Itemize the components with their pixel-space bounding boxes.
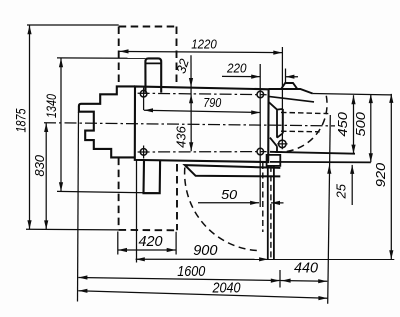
- dim 1600 and 440 line: [78, 270, 327, 288]
- dim 1875 line: [29, 25, 31, 229]
- column lower part: [144, 160, 161, 193]
- svg-text:1600: 1600: [177, 264, 205, 280]
- dim 50 lines: [198, 202, 284, 204]
- table slab second line: [270, 161, 371, 164]
- main centerline: [44, 123, 335, 126]
- spindle head hat trapezoid: [281, 83, 297, 89]
- dim 32 and 436 line: [190, 55, 192, 151]
- swing arc large: [185, 168, 258, 251]
- dim 1340 line: [60, 58, 62, 191]
- bracket block: [267, 155, 281, 166]
- dim 830 line: [45, 123, 47, 229]
- headstock stepped profile: [79, 86, 135, 157]
- hidden dashes lower: [281, 130, 320, 133]
- svg-text:220: 220: [226, 60, 247, 75]
- leg left line: [267, 166, 269, 260]
- ext 1340 top: [57, 57, 145, 59]
- svg-text:420: 420: [139, 234, 163, 250]
- baseline: [26, 228, 119, 231]
- bolt row centerline top: [138, 93, 267, 95]
- svg-text:1875: 1875: [13, 108, 28, 132]
- bolt axis right long: [259, 64, 261, 207]
- table slab upper line: [270, 152, 355, 154]
- dim 790 line: [144, 110, 260, 112]
- dim 900 long line: [136, 258, 395, 260]
- svg-text:436: 436: [173, 125, 188, 147]
- ext top right: [313, 94, 392, 95]
- dim 1220 line: [120, 51, 283, 52]
- svg-text:450: 450: [335, 111, 350, 136]
- bolt hole bottom left: [140, 149, 147, 156]
- spindle nose protrusion: [269, 102, 283, 152]
- svg-text:830: 830: [32, 154, 47, 176]
- svg-text:500: 500: [353, 111, 368, 136]
- top extension line: [27, 24, 119, 26]
- hidden dashes upper: [281, 112, 328, 113]
- bolt row centerline bottom: [138, 151, 267, 153]
- dim 500 line: [370, 94, 372, 162]
- arrowheads: [27, 25, 31, 34]
- svg-text:440: 440: [294, 261, 318, 277]
- dim 420 line: [118, 232, 176, 255]
- dim 2040 line: [78, 291, 327, 298]
- svg-text:920: 920: [373, 162, 388, 187]
- column cap seam: [145, 62, 161, 64]
- ext 900 left: [136, 160, 138, 262]
- svg-text:900: 900: [193, 243, 217, 259]
- bolt tick bottom left: [143, 146, 145, 159]
- ext left long: [78, 112, 79, 302]
- ext 1340 bottom: [57, 191, 158, 193]
- dim 920 line: [390, 94, 392, 259]
- ext right long: [328, 115, 331, 304]
- travel envelope dashed rectangle: [119, 27, 177, 231]
- svg-text:25: 25: [333, 183, 348, 199]
- svg-text:50: 50: [221, 187, 238, 202]
- dim 25 line: [351, 165, 353, 205]
- bolt hole top left: [140, 90, 147, 97]
- bolt hole bottom right: [257, 148, 264, 155]
- leg hidden line: [270, 166, 272, 260]
- bolt hole top right: [257, 91, 264, 98]
- spindle axis line: [281, 47, 283, 140]
- spindle head slant edge: [269, 96, 314, 102]
- spindle head top edge: [269, 89, 313, 94]
- leg right line: [273, 166, 275, 260]
- bolt tick top left: [143, 88, 145, 111]
- spindle center mark: [279, 140, 287, 148]
- svg-text:1220: 1220: [191, 36, 217, 51]
- base plate outline: [135, 86, 269, 162]
- dim 220 line: [222, 69, 298, 85]
- hidden line left of legs: [262, 163, 264, 232]
- swing arc small: [274, 96, 327, 152]
- svg-text:1340: 1340: [44, 94, 59, 118]
- column upper part: [145, 58, 161, 92]
- dim 450 line: [353, 95, 355, 153]
- svg-text:790: 790: [203, 95, 222, 110]
- table slab top: [185, 165, 280, 176]
- svg-text:2040: 2040: [212, 280, 241, 296]
